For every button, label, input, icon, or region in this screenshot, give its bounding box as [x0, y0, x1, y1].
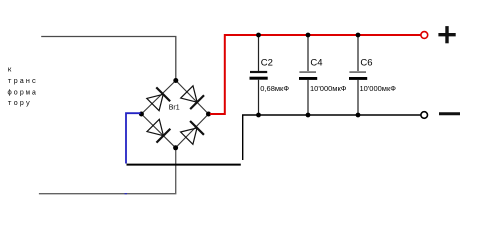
- node plus bus junction C4: [306, 33, 311, 38]
- wire vertical riser to minus bus: [242, 115, 244, 160]
- stray blue tick on bottom wire: [125, 193, 128, 195]
- capacitor C6 branch leads: [357, 35, 359, 115]
- node minus bus junction C2: [256, 113, 261, 118]
- node bridge left junction: [139, 112, 144, 117]
- symbol minus sign: [439, 112, 460, 115]
- svg-text:C4: C4: [310, 57, 322, 68]
- node minus bus junction C4: [306, 113, 311, 118]
- svg-text:Br1: Br1: [169, 104, 180, 111]
- svg-text:C6: C6: [360, 57, 372, 68]
- diode top-left (anode left node, cathode top node): [146, 87, 170, 111]
- node plus bus junction C2: [256, 33, 261, 38]
- wire blue from bridge left node down: [126, 113, 141, 163]
- symbol plus sign: [438, 26, 455, 43]
- wire top transformer lead to bridge top: [41, 37, 176, 81]
- wire red from bridge right node up and plus bus: [210, 35, 421, 114]
- diode top-right (anode top node, cathode right node): [180, 85, 204, 109]
- svg-text:10'000мкФ: 10'000мкФ: [310, 84, 347, 93]
- label "к трансформатору": [8, 67, 39, 108]
- capacitor C2 plates: [250, 71, 268, 80]
- node bridge top junction: [173, 78, 178, 83]
- svg-text:к: к: [8, 67, 14, 75]
- svg-text:10'000мкФ: 10'000мкФ: [360, 84, 397, 93]
- svg-text:0,68мкФ: 0,68мкФ: [260, 84, 289, 93]
- node plus bus junction C6: [356, 33, 361, 38]
- node minus bus junction C6: [356, 113, 361, 118]
- wire minus bus: [242, 114, 421, 116]
- wire thick black bottom horizontal: [127, 164, 241, 166]
- terminal - output circle: [421, 112, 428, 119]
- diode bottom-left (anode left node, cathode bottom node): [146, 119, 170, 143]
- capacitor C4 plates: [299, 71, 317, 80]
- node bridge bottom junction: [173, 145, 178, 150]
- capacitor C6 plates: [349, 71, 367, 80]
- wire bottom transformer lead to bridge bottom: [39, 148, 176, 194]
- svg-text:транс: транс: [8, 78, 39, 86]
- node bridge right junction: [206, 112, 211, 117]
- capacitor C2 branch leads: [258, 35, 260, 115]
- svg-text:форма: форма: [8, 89, 39, 97]
- svg-text:тору: тору: [8, 100, 32, 108]
- svg-text:C2: C2: [261, 57, 273, 68]
- terminal + output circle: [421, 32, 428, 39]
- capacitor C4 branch leads: [307, 35, 309, 115]
- diode bottom-right (anode bottom node, cathode right node): [180, 121, 204, 145]
- bridge rectifier Br1 diamond wires: [141, 81, 208, 148]
